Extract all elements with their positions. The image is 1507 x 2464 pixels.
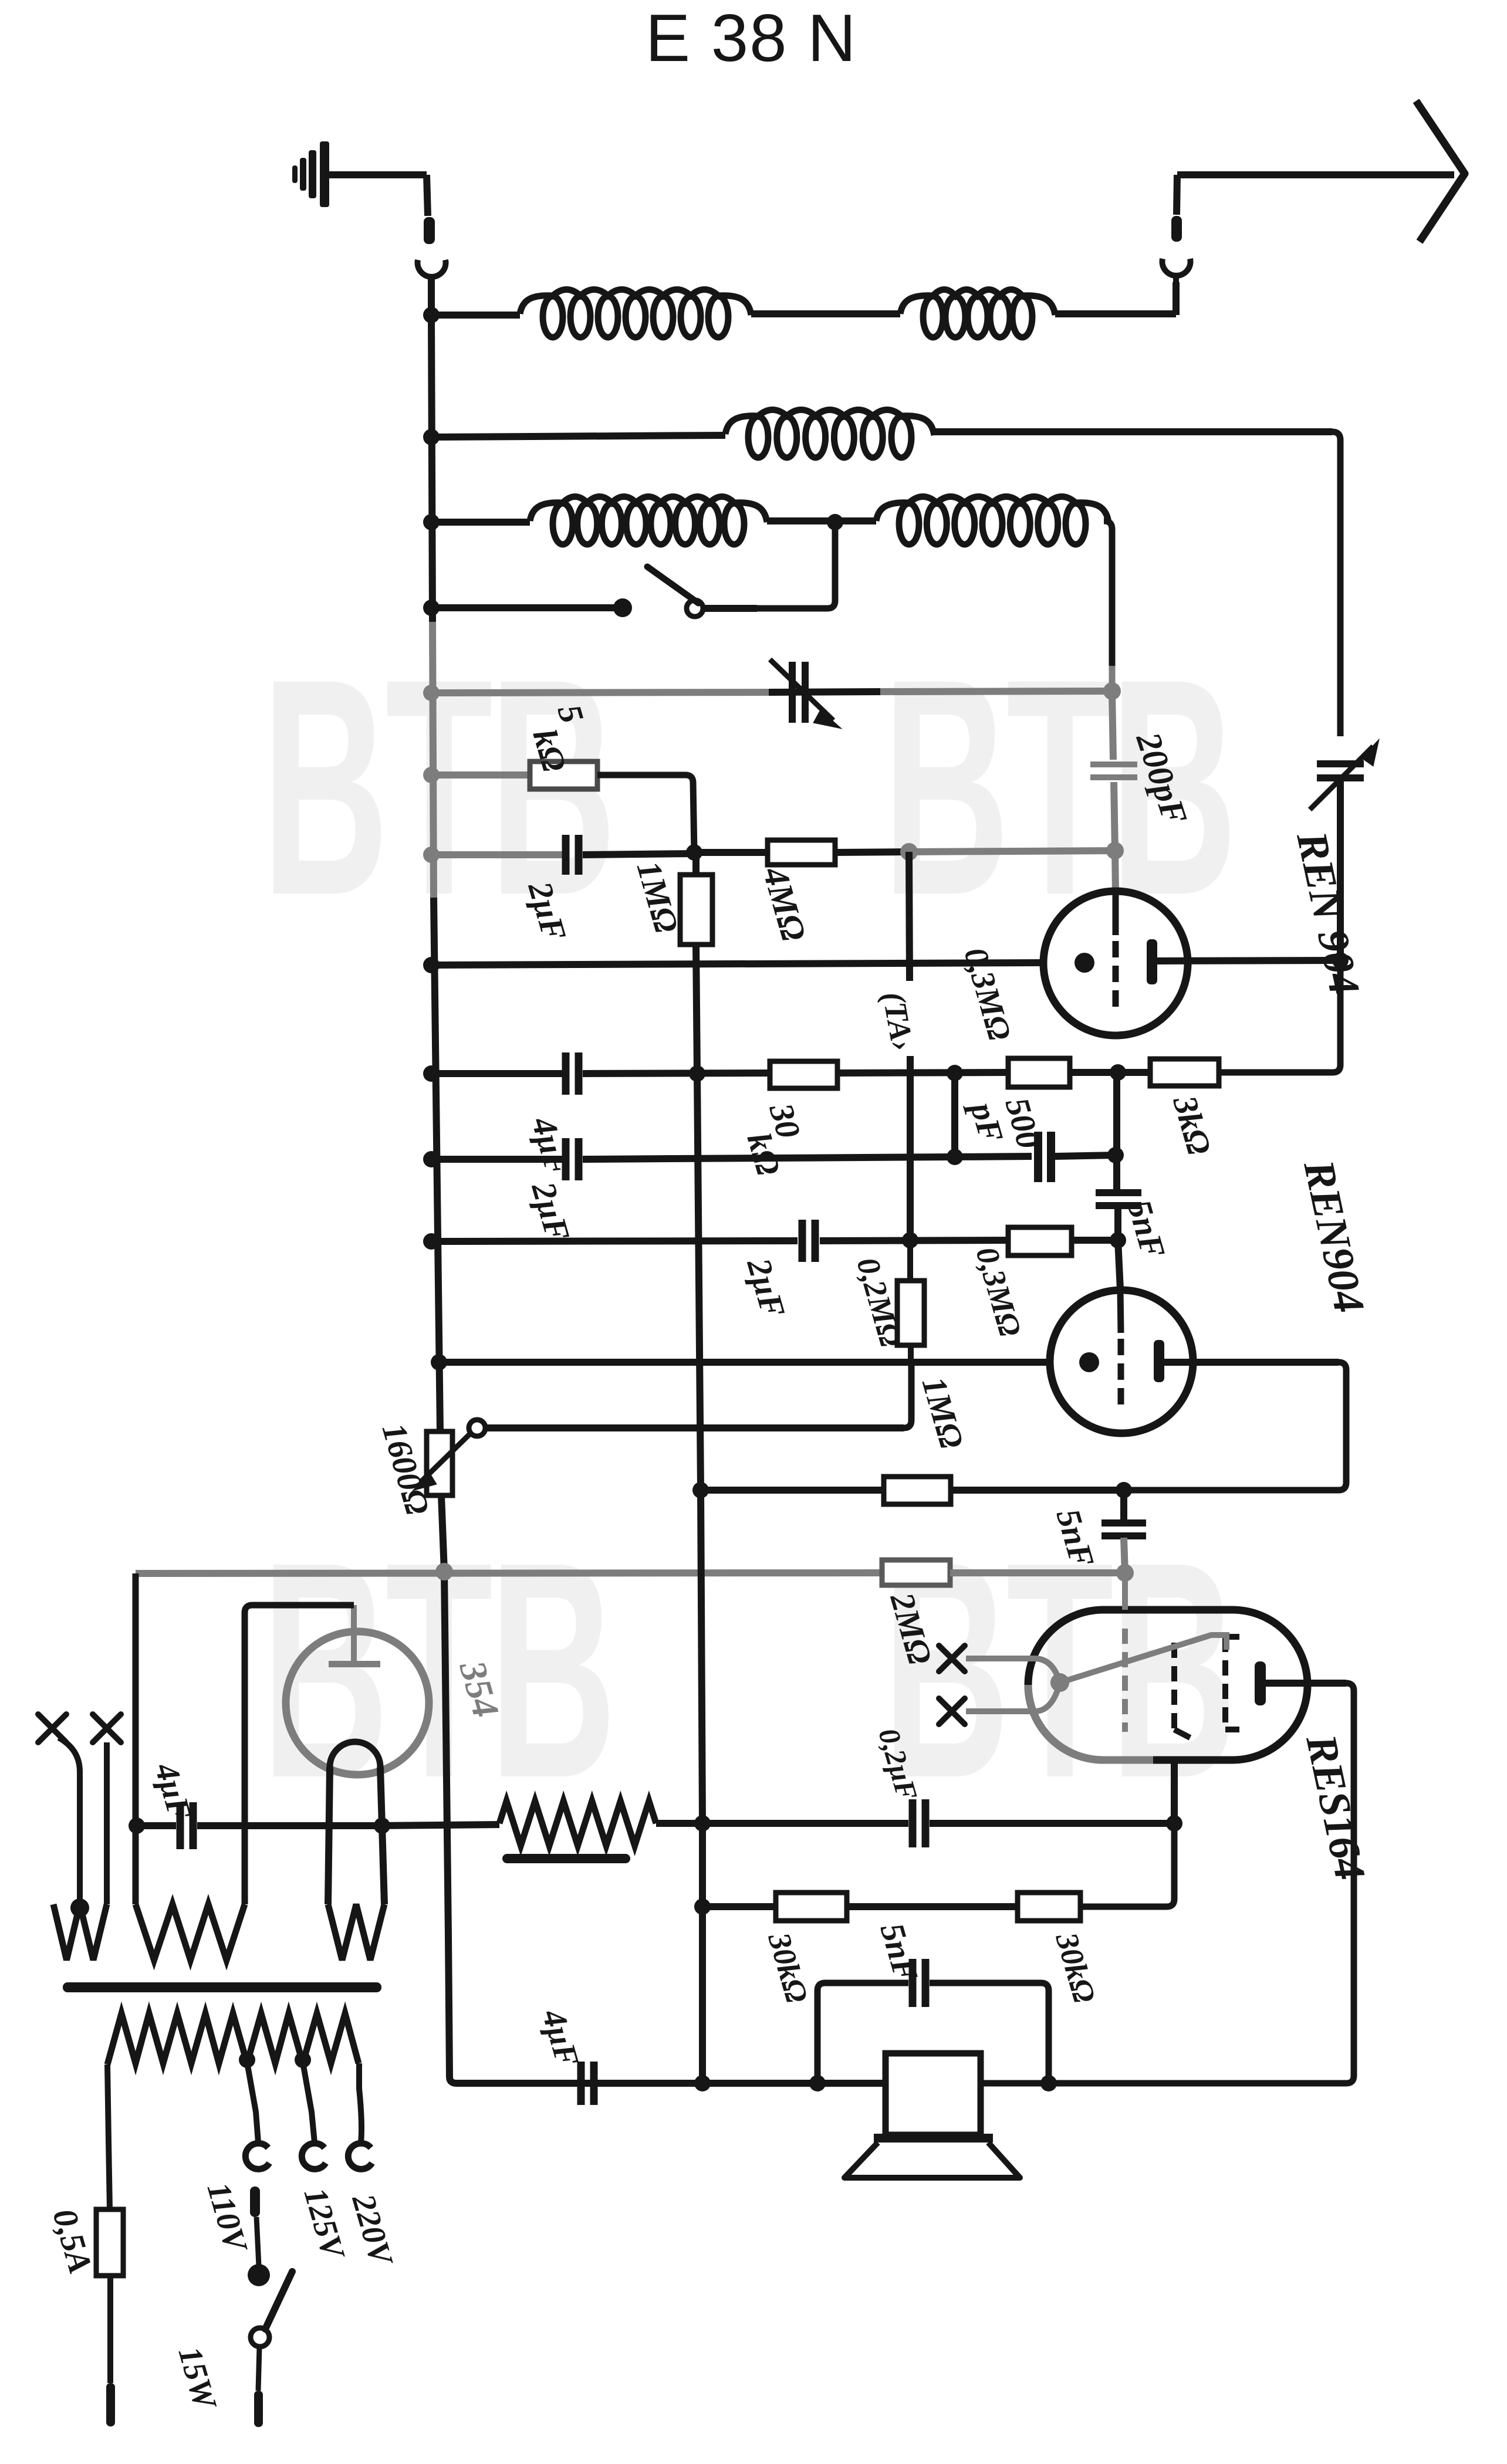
wire grid into V4	[1122, 1573, 1128, 1610]
wire V4 anode out	[1266, 1680, 1346, 1687]
tube V4 RES164	[1028, 1610, 1307, 1760]
node 0.3M-left	[947, 1065, 963, 1081]
capacitor 2uF (3)	[799, 1220, 806, 1262]
plug (antenna right)	[1171, 216, 1182, 242]
wire 4M right	[835, 852, 909, 852]
tube V1 grid line solid	[1113, 894, 1119, 935]
svg-text:REN 904: REN 904	[1287, 827, 1369, 1000]
resistor 1MOhm (2)	[884, 1477, 951, 1504]
plug (antenna plug left)	[424, 217, 435, 244]
wire to 500pF	[955, 1156, 1032, 1157]
node bus-gridrow	[423, 957, 440, 973]
node switch pivot	[248, 2264, 270, 2286]
wire switch down	[258, 2347, 259, 2391]
svg-text:125V: 125V	[297, 2184, 352, 2265]
socket (right)	[1163, 259, 1191, 276]
wire row1976 mid	[583, 1157, 955, 1159]
socket (left)	[418, 260, 446, 277]
wire 0.2M top	[907, 1240, 913, 1281]
capacitor 4uF (2)	[562, 1052, 570, 1095]
wire 500pF right	[1055, 1155, 1116, 1156]
svg-text:BTB: BTB	[883, 1498, 1234, 1842]
switch lever	[265, 2272, 292, 2329]
fuse 0.5A	[96, 2209, 123, 2276]
resistor 0.3MOhm (1)	[1008, 1058, 1070, 1087]
terminal mains left	[106, 2383, 115, 2426]
node bus-row5	[423, 685, 440, 701]
tube V2 anode bar	[1154, 1340, 1164, 1382]
tube V1 grid dot	[1075, 953, 1094, 973]
switch open circle	[251, 2328, 269, 2347]
tube V3 grid lead	[351, 1605, 357, 1661]
svg-text:30kΩ: 30kΩ	[761, 1928, 815, 2007]
wire 1M bottom lead	[696, 945, 697, 1074]
capacitor 200pF	[1090, 761, 1137, 767]
wire down to plug	[427, 175, 428, 216]
wire V3 filament left leg	[328, 1767, 330, 1904]
wire V4 cathode down	[1171, 1758, 1178, 1823]
node anode-rightvert	[1332, 952, 1349, 969]
tube V1 anode bar	[1147, 939, 1157, 984]
node bus-row2114	[423, 1233, 440, 1250]
wire row3108 mid	[376, 1825, 499, 1826]
wire row2 left	[431, 435, 725, 437]
svg-text:0,5A: 0,5A	[46, 2205, 100, 2278]
svg-text:1MΩ: 1MΩ	[630, 857, 687, 937]
wire row3 mid	[767, 517, 876, 524]
wire to tube1 grid	[1115, 851, 1116, 894]
tube V3 filament arc	[330, 1742, 380, 1767]
resistor 30kOhm (3)	[1018, 1893, 1080, 1921]
wire long vertical bottom	[699, 1823, 706, 2083]
wire primary left to fuse	[107, 2064, 110, 2209]
wire 5nF2 top lead	[1120, 1490, 1127, 1524]
resistor 30kOhm (2)	[776, 1893, 847, 1921]
wire right vertical to 3k	[1219, 960, 1340, 1072]
wire row4 to switch	[431, 604, 619, 611]
tube V4 grid dashed	[1122, 1629, 1128, 1732]
svg-text:BTB: BTB	[262, 1498, 613, 1842]
tube V4 screen dashed	[1225, 1634, 1239, 1640]
node bus-row3	[423, 514, 440, 530]
node vert-row3108	[694, 1815, 711, 1832]
wire row5 gray left	[432, 692, 769, 693]
wire X2 down	[104, 1742, 110, 1904]
tube V4 filament diag	[1060, 1635, 1226, 1683]
node leftwinding-row3108	[129, 1817, 145, 1834]
wire row2114 right	[1072, 1237, 1118, 1244]
svg-text:3kΩ: 3kΩ	[1165, 1091, 1219, 1159]
wire left winding riser	[133, 1573, 139, 1904]
winding comb B	[136, 1904, 245, 1960]
coil L2	[725, 410, 934, 436]
watermark BTB 1 (decorative)	[262, 615, 613, 959]
node bus-row2322	[431, 1354, 447, 1370]
node tap 220V	[295, 2052, 311, 2068]
wire row3250 mid	[847, 1903, 1018, 1910]
node res164 grid	[1116, 1564, 1134, 1582]
wire right vertical mid	[1337, 781, 1344, 960]
wire X1 down	[59, 1738, 80, 1904]
node 5nF2 top	[1116, 1482, 1132, 1498]
wire row5 black middle	[769, 692, 880, 692]
tube V1 REN904	[1043, 891, 1188, 1035]
wire row3 left	[431, 519, 530, 526]
svg-text:4µF: 4µF	[147, 1759, 198, 1825]
wire V3 top loop to winding	[245, 1605, 354, 1904]
capacitor 4uF (1)	[177, 1802, 184, 1849]
winding comb C	[328, 1904, 384, 1960]
resistor 0.2MOhm	[897, 1281, 924, 1345]
switch (wave change)	[613, 598, 632, 617]
svg-text:220V: 220V	[344, 2190, 400, 2272]
wire riser to coil3 tap	[757, 522, 835, 608]
resistor 0.3MOhm (2)	[1008, 1227, 1072, 1255]
node vert-row3250	[694, 1898, 711, 1915]
wire V2 anode out	[1164, 1359, 1339, 1366]
svg-text:4µF: 4µF	[535, 2005, 586, 2071]
resistor 4MOhm	[768, 840, 835, 865]
capacitor 2uF (2)	[562, 1138, 570, 1180]
wire 2uF1 right	[583, 854, 694, 855]
wire main bus vertical	[431, 315, 432, 622]
wire row2114 left	[432, 1241, 798, 1241]
wire row3108 to cathode	[930, 1820, 1174, 1827]
wire row2 right	[934, 428, 1332, 435]
wire switch to riser	[703, 605, 757, 612]
wire 5k right corner down	[597, 775, 694, 852]
wire long vertical lower	[701, 1490, 702, 1823]
wire socket down	[1173, 282, 1180, 315]
svg-text:RES164: RES164	[1296, 1730, 1374, 1884]
svg-text:2µF: 2µF	[524, 1177, 577, 1245]
node bus-row4	[423, 600, 440, 616]
wire fuse down	[107, 2276, 113, 2383]
transformer core	[63, 1982, 381, 1992]
plug 110V	[250, 2187, 260, 2217]
node bus-row2680	[435, 1563, 453, 1580]
capacitor 5nF (2)	[1101, 1519, 1146, 1527]
tube V2 grid solid	[1120, 1290, 1121, 1333]
wire row5 gray right	[880, 691, 1112, 692]
tube V2 grid dot	[1079, 1352, 1099, 1372]
wire 0.3M-left down	[951, 1073, 958, 1157]
wire X3 to filament	[966, 1656, 1035, 1661]
socket s2	[302, 2143, 326, 2169]
node 500pF-left	[947, 1149, 963, 1165]
node 0.3M-right	[1110, 1064, 1126, 1081]
node vert-row2540	[692, 1482, 709, 1498]
speaker	[886, 2053, 981, 2135]
node TA-row2114	[902, 1232, 918, 1248]
tube V4 anode bar	[1255, 1661, 1266, 1705]
svg-text:15W: 15W	[171, 2343, 224, 2415]
coil L1b	[900, 290, 1055, 316]
node bridge left	[809, 2075, 826, 2091]
wire 4M left	[694, 849, 768, 856]
terminal X1	[38, 1714, 66, 1742]
wire 5nF1 to row2114	[1114, 1207, 1121, 1240]
wire row3250 up to cathode row	[1080, 1831, 1174, 1907]
antenna arrow	[1177, 171, 1454, 178]
wire ground to plug	[325, 171, 427, 178]
wire row2114 mid	[820, 1240, 1008, 1241]
wire 1M top lead	[692, 852, 700, 875]
variable capacitor C-tune1	[789, 662, 796, 723]
capacitor 0.2uF	[909, 1799, 917, 1847]
transformer primary winding	[107, 2013, 359, 2064]
tube V3 354 rectifier	[286, 1632, 429, 1775]
node 1M top	[686, 844, 702, 861]
tube V2 REN904	[1050, 1290, 1193, 1433]
node bus-row1830	[423, 1065, 440, 1082]
wire 2uF1 left gray	[432, 851, 562, 858]
wire V4 anode to speaker row	[981, 1683, 1354, 2083]
capacitor 500pF	[1034, 1132, 1042, 1182]
wire coil3b to grid node	[1104, 521, 1112, 666]
capacitor 5nF (1)	[1096, 1189, 1141, 1196]
node pickup	[70, 1898, 89, 1917]
node cathode row right	[1166, 1815, 1182, 1832]
wire bus bottom corner to speaker row	[450, 2077, 577, 2083]
wire wiper riser	[904, 1362, 911, 1428]
wire row2540 right	[951, 1487, 1124, 1494]
node grid junction	[1106, 842, 1124, 859]
wire socket to bus	[428, 274, 435, 315]
wire 200pF bottom	[1114, 782, 1115, 851]
svg-text:5nF: 5nF	[873, 1919, 926, 1986]
svg-text:1MΩ: 1MΩ	[915, 1373, 972, 1453]
wire gray row2680 right	[950, 1569, 1125, 1576]
svg-text:REN904: REN904	[1294, 1156, 1373, 1317]
coil L1a	[520, 290, 751, 316]
resistor heater dropper	[499, 1801, 656, 1846]
wire TA upper	[909, 852, 910, 981]
terminal X2	[93, 1714, 121, 1742]
node filament-row3108	[374, 1817, 390, 1834]
wire to tube2 grid	[1118, 1240, 1120, 1289]
wire plug to pivot	[256, 2217, 259, 2266]
resistor 1MOhm (1)	[680, 875, 712, 945]
watermark BTB 4 (decorative)	[883, 1498, 1234, 1842]
tube V4 filament	[1035, 1659, 1060, 1683]
svg-text:E 38 N: E 38 N	[646, 1, 857, 76]
svg-text:2µF: 2µF	[739, 1254, 793, 1322]
resistor 30kOhm (1)	[770, 1061, 837, 1088]
node tap 125V	[239, 2052, 255, 2068]
coil L3b	[876, 497, 1109, 523]
wire wiper row	[485, 1424, 904, 1431]
wire speaker row left	[577, 2080, 886, 2087]
capacitor 4uF (3)	[577, 2062, 585, 2105]
wiper circle	[469, 1420, 485, 1436]
wire 200pF top	[1112, 692, 1113, 760]
tube V4 cathode dashed	[1171, 1643, 1177, 1731]
wire 5nF bridge right	[930, 1983, 1049, 2077]
wire 5nF bridge left	[817, 1983, 908, 2077]
wire row3108 right	[656, 1820, 908, 1827]
node bus-row1	[423, 307, 440, 323]
variable capacitor C-tune2	[1317, 760, 1364, 767]
coil L3a	[530, 497, 767, 523]
node coil3 tap	[827, 514, 843, 530]
resistor 5kOhm	[530, 761, 597, 789]
wire gray row2680 left	[136, 1573, 882, 1573]
winding comb A	[53, 1904, 107, 1960]
wire 5k left gray	[432, 771, 530, 779]
wire right end to socket	[359, 2063, 361, 2143]
wire 0.2M bottom	[908, 1345, 914, 1362]
node bus-5k	[423, 767, 440, 783]
wire row3108 far left	[136, 1822, 176, 1829]
wire long vertical mid	[697, 1074, 701, 1490]
wire tap2 to socket	[303, 2062, 315, 2143]
resistor 2MOhm	[882, 1560, 950, 1585]
tube V4 outline gray part	[1028, 1685, 1153, 1760]
wire X4 to filament	[966, 1708, 1035, 1714]
wire row1976 left	[432, 1156, 562, 1163]
svg-text:30kΩ: 30kΩ	[1049, 1928, 1102, 2007]
node bus-row2	[423, 429, 440, 445]
wire row1 mid	[751, 310, 900, 317]
terminal X3 heater	[939, 1646, 965, 1671]
potentiometer body	[427, 1431, 452, 1495]
svg-text:4MΩ: 4MΩ	[755, 862, 813, 945]
svg-text:5nF: 5nF	[1120, 1196, 1173, 1263]
wire tube2 grid row	[432, 1359, 1048, 1366]
wire row3108 left	[197, 1822, 376, 1829]
node 4M-TA	[900, 843, 918, 861]
wire TA lower	[907, 1056, 914, 1240]
node bridge right	[1040, 2075, 1057, 2091]
node grid2-top	[1110, 1232, 1126, 1248]
socket s1	[245, 2143, 269, 2169]
wire row1 left	[431, 312, 520, 319]
wire row1830 right	[1070, 1069, 1150, 1076]
wire right vertical upper	[1332, 432, 1340, 736]
wire tube1 grid row	[431, 963, 1041, 965]
socket s3	[348, 2143, 372, 2169]
resistor 3kOhm	[1150, 1059, 1219, 1086]
node grid chain top	[1103, 682, 1121, 700]
wire V3 filament right leg	[380, 1767, 384, 1904]
wire row2540 left	[701, 1487, 884, 1494]
wire row1830 mid	[583, 1073, 770, 1074]
node bus-2uF1	[423, 847, 440, 863]
wire tap1 to socket	[247, 2062, 258, 2143]
terminal X4 heater	[939, 1698, 965, 1724]
tube V1 grid dashes	[1113, 941, 1119, 1011]
capacitor 5nF (3)	[909, 1959, 917, 2007]
wire V1 anode to right vertical	[1157, 960, 1340, 961]
node bus-row1976	[423, 1151, 440, 1167]
node 500pF-right	[1107, 1147, 1124, 1163]
terminal mains right	[254, 2391, 263, 2427]
wire row1 right	[1055, 310, 1176, 317]
wire 5nF2 bottom	[1124, 1538, 1125, 1573]
capacitor 2uF (1)	[562, 835, 570, 875]
wire row1830 mid2	[837, 1072, 1008, 1073]
tube V2 grid dashes	[1118, 1339, 1124, 1410]
wire 3k node down to 5nF1	[1113, 1072, 1120, 1192]
svg-text:(TA›: (TA›	[876, 989, 921, 1054]
wire gray 4M to 200pF node	[909, 851, 1115, 852]
ground (Erde) symbol	[320, 141, 329, 207]
node vert1190-row1830	[689, 1065, 705, 1082]
wire arrow to plug	[1177, 175, 1177, 215]
wire V2 anode loop	[1124, 1362, 1346, 1490]
wire row1830 left	[431, 1070, 562, 1077]
wire row3250 left	[702, 1903, 776, 1910]
svg-text:110V: 110V	[200, 2178, 255, 2257]
watermark BTB 2 (decorative)	[883, 615, 1234, 959]
node vert-row3551	[694, 2075, 711, 2091]
watermark BTB 3 (decorative)	[262, 1498, 613, 1842]
